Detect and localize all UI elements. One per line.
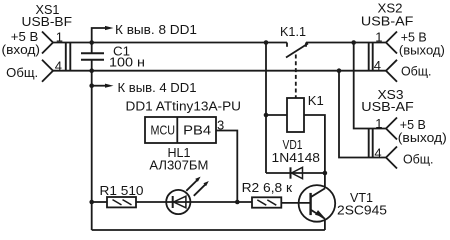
wire +5V rail left (XS1 pin1 to K1.1) — [53, 42, 287, 44]
transistor VT1 emitter stroke — [311, 210, 325, 219]
svg-text:(выход): (выход) — [399, 42, 445, 57]
resistor R2 body — [252, 197, 281, 207]
LED HL1 light arrow 2 — [194, 184, 206, 196]
relay K1.1 mechanical link dashed — [295, 55, 297, 98]
arrowhead LED arrow 2 — [203, 181, 208, 186]
resistor R1 body — [107, 197, 136, 207]
diode VD1 triangle — [292, 167, 303, 178]
junction node pin4 arrow — [89, 83, 94, 88]
wire to pin 8 DD1 with arrow — [92, 28, 106, 43]
relay K1.1 contact right tick — [305, 43, 307, 47]
svg-text:MCU: MCU — [151, 123, 176, 138]
LED HL1 triangle — [174, 196, 186, 208]
arrowhead LED arrow 1 — [195, 177, 200, 182]
wire riser to XS3 pin1 — [354, 43, 386, 129]
wire ground vertical branch — [91, 60, 93, 230]
wire +5V rail right (K1.1 to XS2 pin1) — [306, 42, 386, 44]
resistor R1 left lead — [92, 201, 107, 203]
capacitor C1 top lead — [91, 43, 93, 54]
wire VT1 emitter down — [324, 219, 326, 230]
svg-text:USB-AF: USB-AF — [361, 99, 414, 114]
svg-text:Общ.: Общ. — [401, 63, 432, 78]
svg-text:(вход): (вход) — [2, 42, 41, 57]
wire bottom rail — [92, 229, 325, 231]
svg-text:100 н: 100 н — [109, 55, 145, 70]
connector XS2 pin 4 contact — [386, 60, 397, 82]
relay K1.1 contact blade — [286, 44, 308, 58]
svg-text:АЛ307БМ: АЛ307БМ — [149, 157, 208, 172]
connector XS2 body bars — [369, 43, 373, 71]
connector XS2 pin 1 contact — [386, 32, 397, 54]
connector XS3 pin 4 contact — [386, 147, 397, 169]
svg-text:К выв. 4 DD1: К выв. 4 DD1 — [118, 80, 197, 95]
transistor VT1 base bar — [309, 193, 311, 215]
wire R2 to VT1 base — [281, 202, 310, 204]
wire to pin 4 DD1 with arrow — [92, 85, 106, 87]
microcontroller DD1 box — [145, 117, 216, 143]
svg-text:4: 4 — [55, 59, 62, 74]
svg-text:R2 6,8 к: R2 6,8 к — [242, 180, 293, 195]
svg-text:4: 4 — [374, 145, 381, 160]
resistor R2 power marks — [257, 200, 276, 205]
svg-text:Общ.: Общ. — [403, 152, 434, 167]
wire K1 branch vertical — [265, 43, 267, 174]
LED HL1 cathode bar — [172, 196, 174, 208]
connector XS1 pin 1 contact — [42, 32, 53, 54]
connector XS3 pin 1 contact — [386, 118, 397, 140]
resistor R1 power marks — [113, 200, 132, 205]
svg-text:Общ.: Общ. — [6, 65, 38, 80]
svg-text:К выв. 8 DD1: К выв. 8 DD1 — [115, 22, 197, 37]
svg-text:1: 1 — [375, 29, 382, 44]
diode VD1 lead — [266, 172, 325, 174]
connector XS1 body bars — [66, 43, 71, 71]
wire VT1 collector riser — [324, 173, 326, 188]
junction node LED-R2-pin3 — [235, 200, 240, 205]
svg-text:PB4: PB4 — [183, 123, 211, 138]
junction node XS3 riser common — [337, 68, 342, 73]
svg-text:K1: K1 — [308, 93, 324, 108]
junction node K1 branch top — [264, 40, 269, 45]
junction node C1 top — [89, 40, 94, 45]
junction node XS3 riser top — [351, 40, 356, 45]
wire pin 3 of DD1 down to LED node — [216, 131, 237, 203]
relay K1.1 contact left tick — [286, 43, 288, 47]
svg-text:(выход): (выход) — [398, 130, 447, 145]
relay coil K1 left lead — [266, 114, 287, 116]
svg-text:DD1 ATtiny13A-PU: DD1 ATtiny13A-PU — [126, 99, 242, 114]
svg-text:USB-AF: USB-AF — [361, 13, 414, 28]
svg-text:4: 4 — [374, 58, 381, 73]
svg-text:3: 3 — [217, 118, 224, 133]
capacitor C1 plates — [81, 53, 104, 60]
svg-text:R1 510: R1 510 — [100, 183, 144, 198]
connector XS1 pin 4 contact — [42, 60, 53, 82]
svg-text:K1.1: K1.1 — [280, 24, 306, 39]
diode VD1 cathode bar — [290, 167, 292, 178]
svg-text:USB-BF: USB-BF — [22, 14, 73, 29]
arrowhead to pin 4 DD1 — [105, 84, 114, 88]
transistor VT1 circle — [299, 185, 336, 222]
relay coil K1 right lead — [304, 115, 325, 173]
arrowhead VT1 emitter — [315, 210, 325, 217]
junction node C1 bottom — [89, 68, 94, 73]
arrowhead to pin 8 DD1 — [105, 26, 114, 30]
wire R1 to HL1 to node — [136, 201, 252, 203]
wire common rail (XS1 pin4 to XS2 pin4) — [53, 70, 386, 72]
svg-text:1: 1 — [375, 116, 382, 131]
relay coil K1 body — [287, 98, 304, 132]
transistor VT1 collector stroke — [311, 188, 325, 197]
connector XS3 body bars — [369, 129, 373, 158]
LED HL1 light arrow 1 — [186, 180, 197, 191]
junction node VD1 right — [323, 171, 328, 176]
svg-text:1: 1 — [56, 29, 63, 44]
wire riser to XS3 pin4 — [339, 71, 386, 158]
junction node R1 left — [89, 200, 94, 205]
LED HL1 circle — [166, 190, 190, 214]
junction node coil left — [264, 113, 269, 118]
svg-text:2SC945: 2SC945 — [337, 203, 387, 218]
svg-text:1N4148: 1N4148 — [272, 150, 321, 165]
